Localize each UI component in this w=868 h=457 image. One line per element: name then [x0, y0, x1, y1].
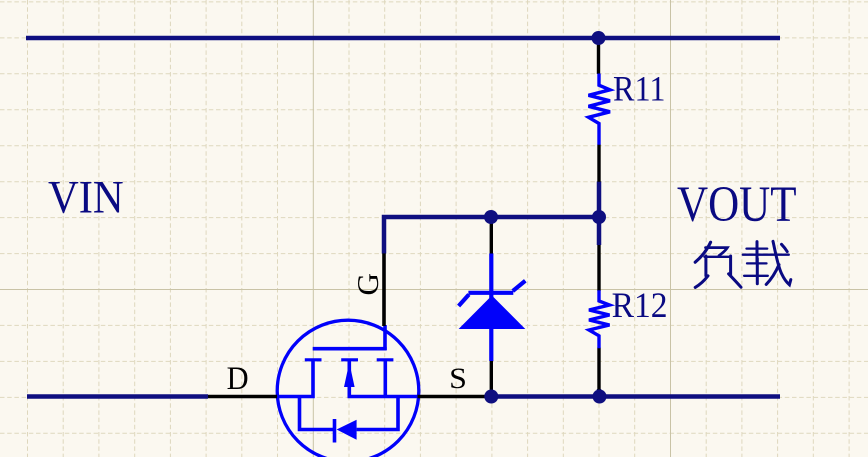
node junction bottom rail / S-zener — [484, 390, 498, 404]
node junction mid wire / R11-R12 — [592, 210, 606, 224]
zener diode D1 pin bottom (black) — [490, 361, 493, 395]
wire bottom rail right (S node to VOUT) — [490, 394, 780, 399]
zener diode D1 pin top (black) — [490, 219, 493, 254]
svg-text:VIN: VIN — [48, 172, 124, 223]
wire mid horizontal (gate node) — [384, 217, 599, 254]
resistor R12 pin bottom (black) — [597, 348, 600, 391]
svg-text:S: S — [449, 363, 467, 395]
node junction bottom rail / R12 — [593, 390, 607, 404]
svg-text:VOUT: VOUT — [677, 176, 797, 232]
transistor Q1 channel dashes — [305, 358, 394, 361]
zener diode D1 body — [459, 254, 526, 362]
resistor R12 pin top (black) — [597, 245, 600, 291]
label 载 (Chinese: load, char 2) — [743, 241, 791, 284]
svg-text:R12: R12 — [612, 285, 668, 325]
resistor R11 zigzag body — [589, 74, 611, 145]
pin S black wire — [418, 395, 492, 399]
wire R11 bottom stub — [597, 181, 602, 219]
transistor Q1 body diode loop — [300, 397, 335, 430]
label 负 (Chinese: load, char 1) — [695, 242, 741, 287]
pin G black wire — [382, 253, 386, 326]
transistor Q1 body diode triangle — [337, 420, 357, 440]
transistor Q1 source rail with middle stub — [349, 360, 418, 397]
node junction mid wire / zener — [484, 210, 498, 224]
transistor Q1 substrate arrow — [344, 363, 355, 388]
svg-text:G: G — [350, 273, 385, 296]
zener diode D1 triangle — [459, 296, 526, 330]
svg-text:D: D — [227, 361, 249, 397]
transistor Q1 drain stub — [277, 360, 314, 397]
wire R12 bottom stub — [597, 389, 602, 397]
transistor Q1 right channel stub — [383, 360, 387, 397]
wire R12 top stub — [597, 215, 602, 245]
svg-text:R11: R11 — [613, 69, 666, 109]
transistor Q1 gate bar — [313, 347, 387, 351]
transistor Q1 MOSFET circle — [277, 320, 419, 457]
resistor R1 pin bottom (black) — [597, 145, 600, 182]
pin D black wire — [208, 395, 277, 399]
transistor Q1 body diode cathode bar — [333, 419, 337, 443]
node junction top rail / R11 — [592, 31, 606, 45]
resistor R12 zigzag body — [589, 290, 610, 348]
wire bottom rail left (VIN side to MOSFET D pin) — [27, 394, 208, 399]
wire top VIN rail — [26, 36, 780, 41]
resistor R1 pin top (black) — [597, 38, 600, 74]
